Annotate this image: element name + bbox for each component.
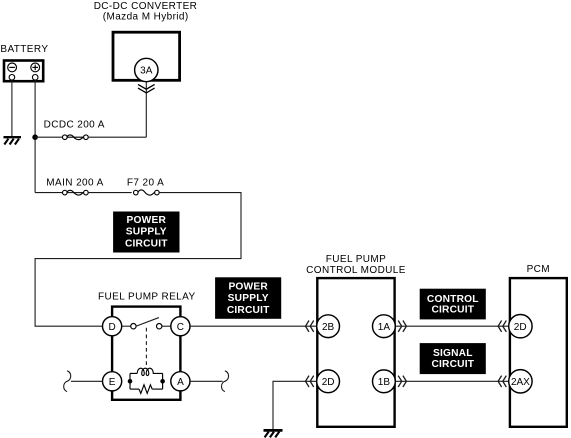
svg-text:C: C <box>177 322 184 333</box>
relay coil <box>137 368 162 375</box>
svg-text:CONTROL MODULE: CONTROL MODULE <box>306 265 406 276</box>
svg-text:2AX: 2AX <box>511 377 530 388</box>
PCM terminal 2AX <box>509 370 532 393</box>
svg-text:CIRCUIT: CIRCUIT <box>227 305 270 316</box>
relay terminal E <box>103 372 122 391</box>
svg-text:SUPPLY: SUPPLY <box>228 293 269 304</box>
svg-text:SIGNAL: SIGNAL <box>433 348 473 359</box>
wire MAIN fuse to F7 fuse <box>88 192 132 194</box>
wire DC-DC converter drop <box>145 82 147 138</box>
svg-text:SUPPLY: SUPPLY <box>126 227 167 238</box>
wire relay C to module 2B <box>190 325 316 327</box>
fuse MAIN 200 A <box>63 190 89 195</box>
svg-text:POWER: POWER <box>127 215 167 226</box>
module terminal 1B <box>373 370 396 393</box>
relay switch contact circles <box>131 324 162 329</box>
label box POWER SUPPLY CIRCUIT (upper) <box>113 212 179 253</box>
svg-text:FUEL PUMP: FUEL PUMP <box>326 254 386 265</box>
svg-text:D: D <box>108 322 115 333</box>
ground (battery negative) <box>4 137 22 144</box>
relay terminal C <box>171 317 190 336</box>
svg-text:2D: 2D <box>514 322 527 333</box>
svg-text:FUEL PUMP RELAY: FUEL PUMP RELAY <box>98 292 196 303</box>
connector chevrons out of 1A <box>398 321 406 332</box>
wire D to switch contact <box>122 325 131 327</box>
relay terminal A <box>171 372 190 391</box>
svg-text:3A: 3A <box>140 66 153 77</box>
svg-text:E: E <box>109 377 116 388</box>
svg-text:MAIN 200 A: MAIN 200 A <box>46 177 103 188</box>
wire F7 fuse to fuel pump relay <box>35 193 241 327</box>
svg-text:DC-DC CONVERTER: DC-DC CONVERTER <box>94 1 198 12</box>
svg-text:BATTERY: BATTERY <box>0 44 48 55</box>
connector chevrons into PCM 2D <box>498 321 506 332</box>
fuse F7 20 A <box>134 190 160 195</box>
connector chevrons (down) <box>138 84 155 93</box>
connector 3A <box>135 58 158 81</box>
DC-DC converter box <box>113 32 180 80</box>
svg-text:2D: 2D <box>322 377 335 388</box>
label box CONTROL CIRCUIT <box>420 289 486 320</box>
connector chevrons out of 1B <box>398 376 406 387</box>
wire switch contact to C <box>162 325 171 327</box>
PCM terminal 2D <box>509 315 532 338</box>
junction node <box>32 134 38 140</box>
wire break symbol left <box>64 371 71 392</box>
svg-text:2B: 2B <box>322 322 335 333</box>
label box SIGNAL CIRCUIT <box>420 343 486 374</box>
wire from terminal A (break) <box>190 380 223 382</box>
wire fuse to DC-DC converter <box>88 136 146 138</box>
svg-text:CIRCUIT: CIRCUIT <box>125 238 168 249</box>
relay switch blade <box>137 318 159 326</box>
fuel pump control module box <box>317 278 394 427</box>
fuse DCDC 200 A <box>63 135 89 140</box>
wire break symbol right <box>221 371 228 392</box>
svg-text:PCM: PCM <box>527 264 550 275</box>
connector chevrons into module 2B <box>306 321 314 332</box>
module terminal 2D <box>317 370 340 393</box>
relay terminal D <box>103 317 122 336</box>
svg-text:POWER: POWER <box>228 282 268 293</box>
relay actuation dashed link <box>145 328 147 368</box>
svg-text:CIRCUIT: CIRCUIT <box>431 305 474 316</box>
wire junction to DCDC fuse <box>35 136 63 138</box>
fuel pump relay box <box>112 307 180 400</box>
svg-text:CIRCUIT: CIRCUIT <box>431 359 474 370</box>
relay resistor <box>139 385 152 394</box>
wire battery positive down <box>34 80 36 193</box>
wire module 1A to PCM 2D <box>396 325 509 327</box>
relay coil junction dots <box>128 379 133 384</box>
svg-text:F7 20 A: F7 20 A <box>127 177 164 188</box>
label box POWER SUPPLY CIRCUIT (lower) <box>215 277 281 319</box>
relay coil parallel network <box>130 368 163 393</box>
ground (module 2D) <box>264 430 283 437</box>
connector chevrons into PCM 2AX <box>498 376 506 387</box>
svg-text:CONTROL: CONTROL <box>427 294 479 305</box>
connector chevrons into module 2D <box>306 376 314 387</box>
battery <box>4 61 43 82</box>
wire to terminal E (break) <box>71 380 103 382</box>
svg-text:DCDC 200 A: DCDC 200 A <box>44 120 105 131</box>
svg-text:1A: 1A <box>378 322 391 333</box>
svg-text:1B: 1B <box>378 377 391 388</box>
PCM box <box>510 278 567 427</box>
wire module 1B to PCM 2AX <box>396 380 509 382</box>
wire battery positive to MAIN fuse <box>35 192 63 194</box>
wire battery negative to ground <box>11 80 13 137</box>
module terminal 2B <box>317 315 340 338</box>
svg-text:(Mazda M Hybrid): (Mazda M Hybrid) <box>103 11 189 22</box>
svg-text:A: A <box>177 377 184 388</box>
module terminal 1A <box>373 315 396 338</box>
wire module 2D to ground <box>273 381 316 429</box>
